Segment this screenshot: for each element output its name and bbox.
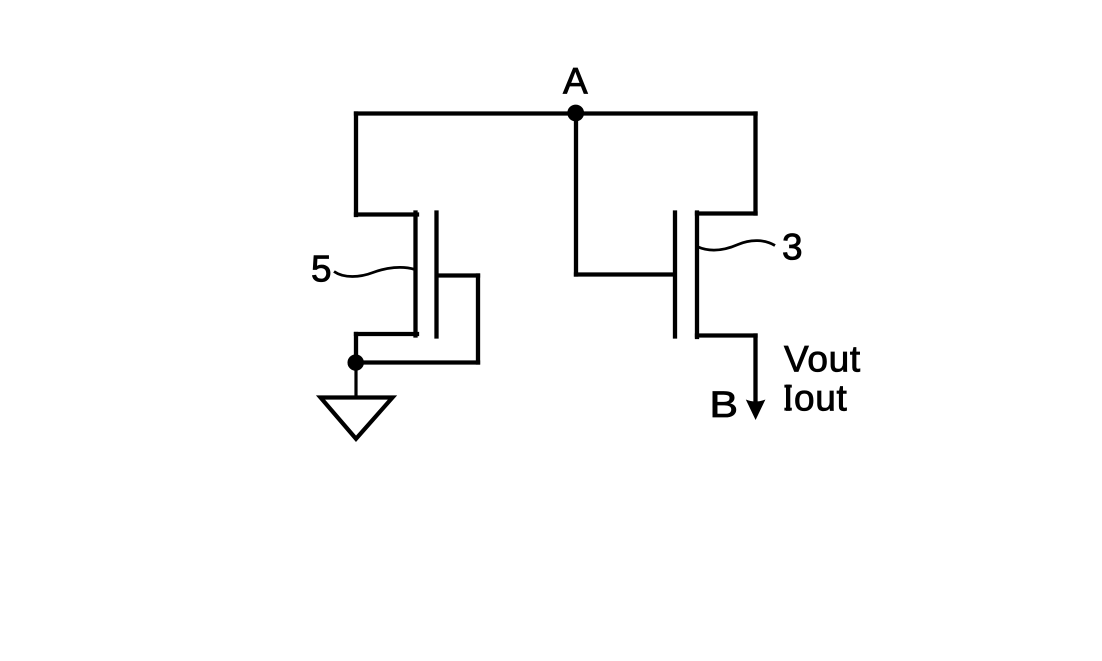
wire: ground stem [354,363,357,397]
transistor 5 gate bar [434,213,438,337]
wire: drain connection into transistor 5 [356,212,417,216]
svg-text:3: 3 [782,227,803,268]
svg-text:A: A [563,61,588,102]
Iout label (with gothic serifs on I) [784,385,791,388]
wire: source drop to ground junction [354,334,358,363]
node A junction dot [567,105,584,122]
wire: source connection of transistor 3 [697,333,756,337]
wire: output line to node B [753,336,757,407]
wire: top horizontal rail at node A [356,111,756,115]
svg-text:B: B [710,384,739,425]
transistor 3 channel bar [695,213,699,338]
wire: gate return vertical of transistor 5 [476,276,480,363]
transistor 3 gate bar [673,213,677,337]
transistor 5 channel bar [413,213,417,336]
junction dot at ground node [348,354,364,370]
leader squiggle for label 3 [697,241,775,250]
wire: gate lead of transistor 5 [438,273,478,277]
wire: gate return bottom horizontal to ground junction [356,360,478,364]
svg-text:5: 5 [311,249,332,290]
wire: vertical from node A down to gate of transistor 3 [574,114,578,275]
leader squiggle for label 5 [334,267,415,276]
output arrowhead at node B [746,400,766,421]
wire: source connection from transistor 5 [356,332,417,336]
svg-text:Iout: Iout [783,378,848,419]
svg-text:Vout: Vout [784,339,861,380]
ground symbol triangle [321,398,393,439]
wire: right vertical up to top rail [753,114,757,214]
wire: gate lead of transistor 3 [576,272,673,276]
wire: drain connection of transistor 3 [697,211,756,215]
wire: left branch vertical from top rail [354,114,358,216]
